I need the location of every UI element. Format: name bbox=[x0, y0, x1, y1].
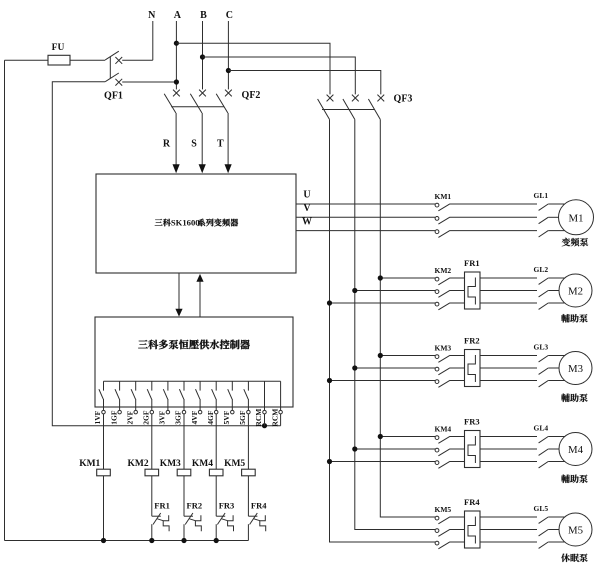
breaker QF2 pole 3 contact x bbox=[225, 90, 232, 97]
svg-text:FR1: FR1 bbox=[464, 258, 480, 268]
wire QF2 pole 3 to inverter bbox=[227, 113, 229, 165]
wire comm down arrow bbox=[178, 273, 180, 310]
isolator GL3 blade bbox=[539, 381, 549, 387]
thermal relay FR3 element bbox=[468, 436, 475, 463]
wire contact to FR3 bbox=[450, 436, 465, 438]
wire branch top feed bbox=[380, 355, 435, 357]
thermal relay FR1 box bbox=[465, 272, 481, 309]
svg-text:B: B bbox=[200, 10, 207, 21]
junction A-QF3 bbox=[174, 41, 179, 46]
svg-text:M5: M5 bbox=[568, 525, 583, 537]
svg-text:4VF: 4VF bbox=[190, 410, 199, 424]
wire KM1 coil to bus bbox=[103, 476, 105, 541]
svg-text:GL1: GL1 bbox=[534, 191, 549, 200]
fuse FU bbox=[48, 55, 70, 65]
thermal contact FR3 bar bbox=[216, 515, 225, 517]
junction bus KM3 bbox=[181, 538, 186, 543]
contactor coil KM5 bbox=[242, 469, 256, 476]
terminal 2GF bbox=[151, 381, 153, 390]
wire into motor bbox=[548, 355, 566, 357]
wire FR3 to isolator bbox=[480, 436, 537, 438]
wire branch bottom feed bbox=[330, 461, 436, 463]
svg-text:FU: FU bbox=[52, 43, 65, 53]
junction mid feed bbox=[352, 288, 357, 293]
svg-text:S: S bbox=[191, 139, 197, 150]
wire branch bottom feed bbox=[330, 380, 436, 382]
wire C to QF3 bbox=[228, 71, 380, 95]
thermal contact FR4 bar bbox=[248, 515, 257, 517]
wire KM5 coil to FR4 bbox=[247, 476, 249, 516]
breaker QF3 pole 2 contact x bbox=[352, 95, 359, 102]
terminal 2VF bbox=[135, 381, 137, 390]
wire FR2 to isolator bbox=[480, 380, 537, 382]
wire bottom control bus bbox=[5, 540, 249, 542]
svg-text:FR3: FR3 bbox=[464, 416, 480, 426]
wire branch bottom feed bbox=[330, 302, 436, 304]
svg-text:QF2: QF2 bbox=[242, 90, 261, 101]
contactor coil KM4 bbox=[209, 469, 223, 476]
svg-text:1VF: 1VF bbox=[93, 410, 102, 424]
thermal contact FR1 release link bbox=[157, 519, 163, 521]
wire KM2 coil to FR1 bbox=[151, 476, 153, 516]
svg-text:3GF: 3GF bbox=[174, 410, 183, 425]
breaker QF3 pole 1 contact x bbox=[327, 95, 334, 102]
junction mid feed bbox=[352, 446, 357, 451]
wire QF3 pole1 down / branch5 bottom bbox=[330, 119, 436, 542]
junction bottom feed bbox=[327, 459, 332, 464]
junction top feed bbox=[378, 275, 383, 280]
arrow into inverter bbox=[199, 164, 206, 173]
svg-text:KM2: KM2 bbox=[435, 266, 452, 275]
wire FR2 to bus bbox=[183, 524, 185, 540]
wire: QF1 pole2 left to RCM riser bbox=[52, 82, 280, 426]
wire FR1 to bus bbox=[151, 524, 153, 540]
label pump name bbox=[561, 314, 570, 322]
svg-text:M1: M1 bbox=[569, 212, 584, 224]
wire: QF1 pole1 to N bbox=[122, 59, 153, 61]
thermal contact FR1 element bbox=[163, 515, 169, 531]
wire QF2 pole 2 to inverter bbox=[201, 113, 203, 165]
wire FR3 to bus bbox=[215, 524, 217, 540]
motor M2 bbox=[559, 274, 592, 307]
svg-text:A: A bbox=[174, 10, 182, 21]
svg-text:KM4: KM4 bbox=[435, 424, 452, 433]
svg-text:GL3: GL3 bbox=[534, 342, 549, 351]
wire: QF1 pole2 to phase A bbox=[122, 81, 176, 83]
svg-text:FR1: FR1 bbox=[154, 500, 170, 510]
wire contact to FR1 bbox=[450, 290, 465, 292]
wire terminal to KM1 coil bbox=[103, 414, 105, 469]
breaker QF2 pole 2 contact x bbox=[199, 90, 206, 97]
contactor KM1 contact bbox=[435, 217, 439, 221]
wire contact to FR2 bbox=[450, 367, 465, 369]
wire branch mid feed bbox=[355, 367, 435, 369]
svg-text:KM5: KM5 bbox=[435, 505, 452, 514]
junction bottom feed bbox=[327, 378, 332, 383]
wire contact to FR4 bbox=[450, 541, 465, 543]
thermal contact FR2 release link bbox=[190, 519, 196, 521]
thermal contact FR2 element bbox=[195, 515, 201, 531]
wire FR2 to isolator bbox=[480, 367, 537, 369]
junction bottom feed bbox=[327, 300, 332, 305]
wire contact to FR3 bbox=[450, 448, 465, 450]
isolator GL2 blade bbox=[539, 278, 549, 284]
wire QF2 pole 1 to inverter bbox=[175, 113, 177, 165]
wire FR4 to isolator bbox=[480, 529, 537, 531]
isolator GL1 blade bbox=[539, 231, 549, 237]
svg-text:5GF: 5GF bbox=[238, 410, 247, 425]
svg-text:R: R bbox=[163, 139, 171, 150]
isolator GL4 blade bbox=[539, 437, 549, 443]
contactor KM5 contact bbox=[435, 541, 439, 545]
wire terminal to KM5 coil bbox=[247, 414, 249, 469]
wire into motor bbox=[548, 290, 560, 292]
motor M3 bbox=[559, 352, 592, 385]
wire V output bbox=[296, 216, 435, 218]
thermal contact FR1 blade bbox=[153, 513, 161, 525]
wire branch mid feed bbox=[355, 448, 435, 450]
thermal relay FR4 element bbox=[468, 517, 475, 544]
svg-text:RCM: RCM bbox=[270, 409, 279, 427]
wire U output bbox=[296, 203, 435, 205]
svg-text:3VF: 3VF bbox=[158, 410, 167, 424]
breaker QF2 pole 2 blade bbox=[190, 94, 202, 113]
contactor KM1 contact bbox=[435, 203, 439, 207]
isolator GL5 blade bbox=[539, 530, 549, 536]
contactor KM5 contact bbox=[435, 516, 439, 520]
breaker QF3 pole 1 blade bbox=[318, 99, 330, 119]
thermal contact FR4 release link bbox=[254, 519, 260, 521]
breaker QF3 link bbox=[322, 109, 375, 111]
svg-text:W: W bbox=[302, 216, 312, 227]
arrow into inverter bbox=[173, 164, 180, 173]
breaker QF1 pole 1 contact x bbox=[115, 57, 122, 64]
wire contact to FR2 bbox=[450, 380, 465, 382]
breaker QF1 pole 2 contact x bbox=[115, 79, 122, 86]
isolator GL4 blade bbox=[539, 462, 549, 468]
isolator GL1 blade bbox=[539, 204, 549, 210]
wire contact to FR3 bbox=[450, 461, 465, 463]
thermal relay FR3 box bbox=[465, 431, 481, 468]
wire into motor bbox=[548, 216, 560, 218]
svg-text:GL4: GL4 bbox=[534, 423, 549, 432]
junction C-QF3 bbox=[226, 68, 231, 73]
terminal 3VF bbox=[167, 381, 169, 390]
contactor KM4 contact bbox=[435, 448, 439, 452]
contactor coil KM2 bbox=[145, 469, 159, 476]
junction bus KM2 bbox=[149, 538, 154, 543]
wire contact to FR2 bbox=[450, 355, 465, 357]
svg-text:KM4: KM4 bbox=[192, 459, 213, 469]
wire A to QF3 bbox=[176, 43, 330, 94]
svg-text:KM2: KM2 bbox=[127, 459, 148, 469]
wire: control common left bus bbox=[4, 60, 6, 540]
wire FR3 to isolator bbox=[480, 448, 537, 450]
breaker QF1 link bbox=[109, 57, 111, 79]
junction A-QF1 bbox=[174, 79, 179, 84]
wire FR2 to isolator bbox=[480, 355, 537, 357]
svg-text:KM1: KM1 bbox=[435, 192, 452, 201]
motor M5 bbox=[559, 513, 592, 546]
op-box U2 controller bbox=[95, 317, 293, 407]
breaker QF2 pole 3 blade bbox=[216, 94, 228, 113]
svg-text:GL2: GL2 bbox=[534, 265, 549, 274]
svg-text:GL5: GL5 bbox=[534, 504, 549, 513]
svg-text:2GF: 2GF bbox=[142, 410, 151, 425]
wire contact to FR1 bbox=[450, 302, 465, 304]
isolator GL3 blade bbox=[539, 368, 549, 374]
label pump name bbox=[562, 238, 571, 247]
wire contact to FR4 bbox=[450, 516, 465, 518]
wire into motor bbox=[548, 277, 566, 279]
svg-text:FR3: FR3 bbox=[219, 500, 235, 510]
breaker QF2 pole 1 contact x bbox=[173, 90, 180, 97]
thermal contact FR2 bar bbox=[184, 515, 193, 517]
svg-text:4GF: 4GF bbox=[206, 410, 215, 425]
wire into motor bbox=[548, 448, 560, 450]
thermal contact FR3 blade bbox=[217, 513, 225, 525]
wire into motor bbox=[548, 302, 566, 304]
svg-text:M4: M4 bbox=[568, 444, 584, 456]
breaker QF3 pole 3 blade bbox=[368, 99, 380, 119]
contactor KM3 contact bbox=[435, 367, 439, 371]
op-box U1 inverter bbox=[96, 174, 296, 273]
wire FR4 to isolator bbox=[480, 516, 537, 518]
contactor coil KM3 bbox=[177, 469, 191, 476]
svg-text:QF3: QF3 bbox=[394, 94, 413, 105]
svg-text:FR4: FR4 bbox=[251, 500, 267, 510]
contactor KM4 contact bbox=[435, 436, 439, 440]
wire branch top feed bbox=[380, 436, 435, 438]
wire KM4 coil to FR3 bbox=[215, 476, 217, 516]
contactor KM5 contact bbox=[435, 529, 439, 533]
contactor KM3 contact bbox=[435, 380, 439, 384]
svg-text:C: C bbox=[226, 10, 233, 21]
wire RCM terminal 2 down bbox=[280, 414, 282, 426]
wire FR3 to isolator bbox=[480, 461, 537, 463]
svg-text:U: U bbox=[303, 190, 310, 201]
wire: fuse to QF1 bbox=[70, 59, 105, 61]
motor M1 bbox=[559, 200, 594, 235]
isolator GL5 blade bbox=[539, 542, 549, 548]
svg-text:KM5: KM5 bbox=[224, 459, 245, 469]
svg-text:KM1: KM1 bbox=[79, 459, 100, 469]
wire B to QF3 bbox=[203, 57, 356, 94]
junction top feed bbox=[378, 353, 383, 358]
svg-text:1GF: 1GF bbox=[109, 410, 118, 425]
terminal 5VF bbox=[231, 381, 233, 390]
svg-text:FR2: FR2 bbox=[187, 500, 203, 510]
thermal relay FR2 box bbox=[465, 350, 481, 387]
breaker QF1 pole 2 blade bbox=[105, 73, 119, 82]
wire into motor bbox=[548, 230, 566, 232]
terminal 3GF bbox=[183, 381, 185, 390]
thermal contact FR2 blade bbox=[185, 513, 193, 525]
wire QF3 pole3 down / branch5 top bbox=[380, 119, 435, 517]
wire terminal to KM4 coil bbox=[215, 414, 217, 469]
terminal RCM bbox=[264, 381, 266, 410]
isolator GL4 blade bbox=[539, 449, 549, 455]
junction RCM bbox=[262, 423, 267, 428]
junction B-QF3 bbox=[200, 54, 205, 59]
contactor KM2 contact bbox=[435, 302, 439, 306]
contactor KM2 contact bbox=[435, 277, 439, 281]
terminal 1GF bbox=[119, 381, 121, 390]
wire W output bbox=[296, 230, 435, 232]
svg-text:M3: M3 bbox=[568, 363, 583, 375]
isolator GL3 blade bbox=[539, 356, 549, 362]
wire terminal to KM2 coil bbox=[151, 414, 153, 469]
label pump name bbox=[561, 475, 570, 483]
wire terminal to KM3 coil bbox=[183, 414, 185, 469]
terminal 4VF bbox=[199, 381, 201, 390]
wire branch top feed bbox=[380, 277, 435, 279]
thermal contact FR3 element bbox=[228, 515, 234, 531]
wire FR4 to isolator bbox=[480, 541, 537, 543]
wire FR4 to bus bbox=[247, 524, 249, 540]
breaker QF2 link bbox=[171, 106, 224, 108]
svg-text:T: T bbox=[217, 139, 224, 150]
thermal relay FR2 element bbox=[468, 355, 475, 382]
terminal 1VF bbox=[103, 381, 105, 390]
thermal contact FR4 element bbox=[260, 515, 266, 531]
wire into motor bbox=[548, 516, 566, 518]
isolator GL2 blade bbox=[539, 291, 549, 297]
wire: feed to fuse bbox=[5, 59, 49, 61]
wire contact to isolator bbox=[450, 203, 537, 205]
svg-text:FR2: FR2 bbox=[464, 335, 480, 345]
svg-text:M2: M2 bbox=[568, 286, 583, 298]
wire terminal bus bbox=[104, 380, 281, 382]
terminal 4GF bbox=[215, 381, 217, 390]
isolator GL1 blade bbox=[539, 217, 549, 223]
wire contact to FR4 bbox=[450, 529, 465, 531]
contactor KM1 contact bbox=[435, 230, 439, 234]
svg-text:2VF: 2VF bbox=[125, 410, 134, 424]
wire B bbox=[202, 21, 204, 89]
wire into motor bbox=[548, 436, 566, 438]
junction mid feed bbox=[352, 365, 357, 370]
wire into motor bbox=[548, 367, 560, 369]
thermal contact FR4 blade bbox=[250, 513, 258, 525]
isolator GL2 blade bbox=[539, 303, 549, 309]
svg-text:V: V bbox=[303, 203, 311, 214]
label U1 text bbox=[155, 219, 163, 226]
label pump name bbox=[561, 554, 570, 562]
thermal contact FR1 bar bbox=[152, 515, 161, 517]
wire into motor bbox=[548, 461, 566, 463]
wire comm up arrow bbox=[199, 281, 201, 317]
wire C bbox=[227, 21, 229, 89]
junction bus KM1 bbox=[101, 538, 106, 543]
svg-text:KM3: KM3 bbox=[160, 459, 181, 469]
breaker QF1 pole 1 blade bbox=[105, 51, 119, 60]
thermal relay FR4 box bbox=[465, 511, 481, 548]
wire FR1 to isolator bbox=[480, 290, 537, 292]
contactor KM2 contact bbox=[435, 290, 439, 294]
arrow into inverter bbox=[225, 164, 232, 173]
wire RCM terminal 1 down bbox=[264, 414, 266, 426]
wire contact to isolator bbox=[450, 216, 537, 218]
thermal relay FR1 element bbox=[468, 278, 475, 305]
wire QF3 pole2 down / branch5 middle bbox=[355, 119, 435, 529]
contactor KM3 contact bbox=[435, 355, 439, 359]
junction top feed bbox=[378, 434, 383, 439]
wire into motor bbox=[548, 203, 566, 205]
breaker QF3 pole 3 contact x bbox=[377, 95, 384, 102]
junction bus KM4 bbox=[214, 538, 219, 543]
thermal contact FR3 release link bbox=[222, 519, 228, 521]
svg-text:N: N bbox=[148, 10, 156, 21]
wire contact to FR1 bbox=[450, 277, 465, 279]
wire KM3 coil to FR2 bbox=[183, 476, 185, 516]
svg-text:FR4: FR4 bbox=[464, 497, 480, 507]
wire contact to isolator bbox=[450, 230, 537, 232]
wire A bbox=[175, 21, 177, 89]
wire into motor bbox=[548, 529, 560, 531]
wire into motor bbox=[548, 380, 566, 382]
wire branch mid feed bbox=[355, 290, 435, 292]
wire N bbox=[152, 21, 154, 60]
terminal RCM bbox=[280, 381, 282, 410]
svg-text:KM3: KM3 bbox=[435, 343, 452, 352]
breaker QF2 pole 1 blade bbox=[164, 94, 176, 113]
contactor KM4 contact bbox=[435, 461, 439, 465]
wire into motor bbox=[548, 541, 566, 543]
isolator GL5 blade bbox=[539, 517, 549, 523]
wire FR1 to isolator bbox=[480, 302, 537, 304]
label U2 text bbox=[138, 340, 148, 348]
svg-text:SK1600: SK1600 bbox=[171, 218, 200, 228]
terminal 5GF bbox=[247, 381, 249, 390]
label pump name bbox=[561, 394, 570, 402]
svg-text:5VF: 5VF bbox=[222, 410, 231, 424]
svg-text:RCM: RCM bbox=[254, 409, 263, 427]
breaker QF3 pole 2 blade bbox=[343, 99, 355, 119]
motor M4 bbox=[559, 433, 592, 466]
wire FR1 to isolator bbox=[480, 277, 537, 279]
svg-text:QF1: QF1 bbox=[104, 91, 123, 102]
contactor coil KM1 bbox=[97, 469, 111, 476]
